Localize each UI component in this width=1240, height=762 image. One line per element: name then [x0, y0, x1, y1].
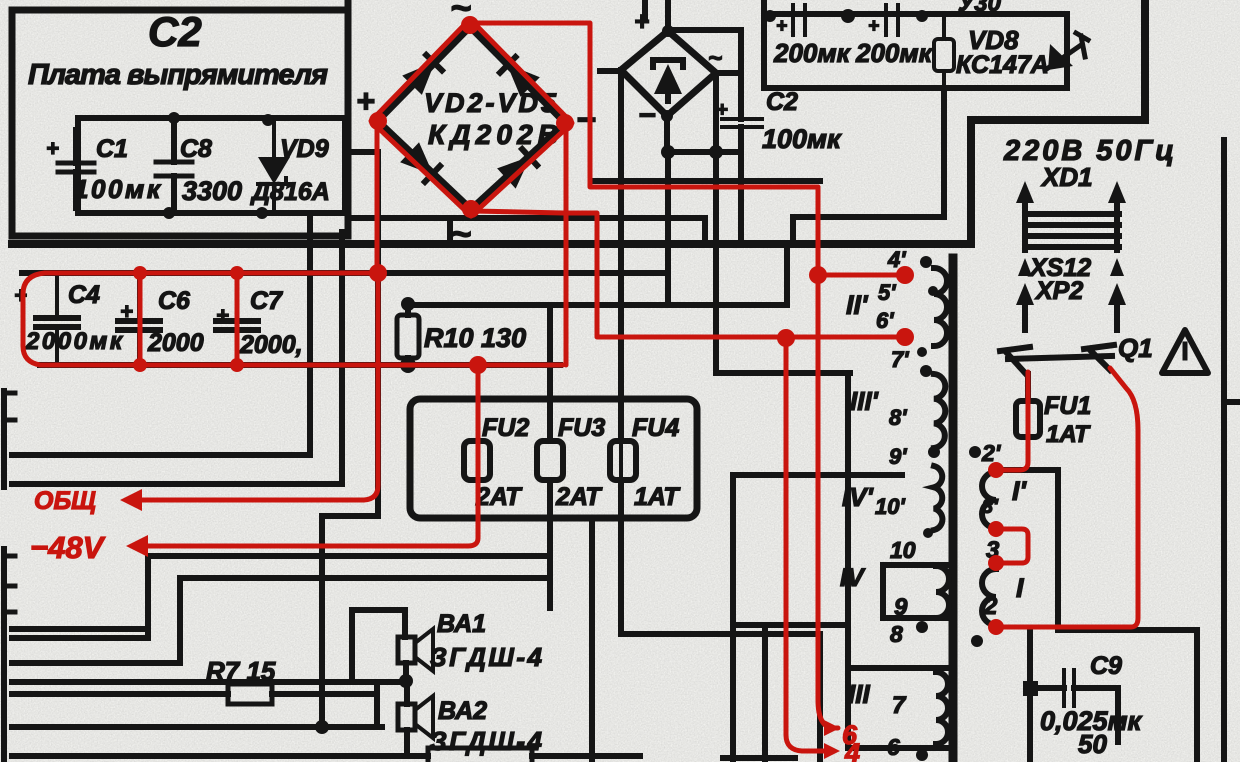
wire x=716 down [713, 73, 719, 373]
svg-text:Q1: Q1 [1118, 333, 1153, 363]
diode VD2 top-left arm [402, 53, 444, 95]
wire bridge2 plus stub [642, 0, 648, 20]
node bridge2 bottom [661, 110, 673, 122]
svg-text:ОБЩ: ОБЩ [34, 487, 96, 515]
speaker BA2 [398, 704, 415, 730]
wire x=820 down [817, 634, 823, 762]
svg-text:С8: С8 [180, 135, 212, 163]
svg-text:FU2: FU2 [482, 414, 529, 442]
red C6 trace [138, 273, 143, 365]
svg-text:ВА1: ВА1 [437, 610, 486, 638]
winding IV [936, 566, 949, 618]
transformer core [949, 258, 958, 762]
winding I primary [982, 569, 996, 625]
wire C8 lead [171, 118, 177, 213]
svg-text:С2: С2 [148, 8, 202, 55]
red arrowhead 4 [824, 743, 840, 759]
svg-text:С7: С7 [250, 287, 283, 315]
resistor bottom cut [428, 748, 532, 762]
svg-text:+: + [120, 299, 133, 324]
node pin 10' [923, 528, 933, 538]
fuse FU1 [1016, 401, 1040, 437]
svg-text:III': III' [850, 386, 879, 416]
wire switch to FU1 [1025, 374, 1031, 401]
svg-text:8: 8 [890, 621, 903, 647]
connector edge ladder upper [1, 391, 7, 487]
winding III box [848, 668, 948, 748]
svg-text:2: 2 [983, 593, 998, 620]
red bridge outline [371, 19, 572, 216]
red arrowhead 6 [824, 720, 840, 736]
svg-text:Д816А: Д816А [250, 178, 330, 206]
red wire minus48 [140, 365, 478, 546]
svg-text:9': 9' [889, 444, 907, 469]
red node pin 6' [896, 328, 914, 346]
svg-text:2АТ: 2АТ [555, 483, 603, 511]
connector XD1 pin arrows [1025, 196, 1117, 250]
svg-text:100мк: 100мк [762, 124, 842, 154]
svg-text:КС147А: КС147А [956, 51, 1049, 79]
wire y=475 [733, 472, 902, 478]
red node pin 4' [896, 266, 914, 284]
wire y=727 [12, 724, 382, 730]
svg-text:7: 7 [892, 692, 907, 719]
connector XD1 ladder [1027, 214, 1119, 247]
wire bridge2 bottom down [664, 116, 670, 152]
node pin 4' [920, 256, 932, 268]
warning triangle [1162, 330, 1208, 373]
fuse FU4 [610, 441, 636, 480]
wire x=622 down to FU4 [618, 70, 624, 441]
svg-text:2': 2' [981, 440, 1002, 466]
wire x=592 down [589, 520, 595, 762]
svg-text:FU3: FU3 [558, 414, 605, 442]
arrowhead XP2 right [1108, 283, 1126, 305]
wire minus bus y=365 [40, 362, 560, 368]
svg-text:I': I' [1012, 476, 1028, 506]
svg-text:IV': IV' [842, 482, 874, 512]
svg-text:3': 3' [982, 496, 999, 518]
svg-text:+: + [634, 6, 649, 36]
capacitor 200mk no1 [793, 5, 805, 35]
capacitor C2 [722, 119, 762, 127]
svg-text:XD1: XD1 [1040, 162, 1093, 192]
wire y=556 [148, 553, 545, 559]
red node box top main [369, 264, 387, 282]
svg-text:−: − [576, 101, 596, 139]
winding I' primary [982, 472, 996, 528]
VD9 triangle [258, 157, 290, 184]
fuse FU3 [537, 441, 563, 480]
svg-text:XP2: XP2 [1034, 277, 1083, 305]
wire bridge plus output down [375, 152, 381, 516]
filter box 200mk [764, 0, 1067, 88]
svg-text:2000: 2000 [147, 329, 204, 357]
red node bridge bottom [462, 200, 480, 218]
wire y=218 bridge bottom bus [348, 218, 705, 244]
red node box top C6 [133, 266, 147, 280]
node C9 [1023, 681, 1038, 696]
svg-text:4: 4 [844, 738, 860, 762]
node A inner box top C8 [168, 112, 180, 124]
wire C6 leads [137, 273, 141, 365]
wire C2 bottom [668, 127, 741, 152]
diode VD4 bottom-left arm [400, 142, 442, 184]
svg-text:R7 15: R7 15 [206, 656, 276, 686]
wire y=484 [12, 232, 342, 484]
svg-text:3300: 3300 [182, 176, 242, 206]
capacitor C7 [216, 321, 258, 330]
svg-text:+: + [716, 99, 728, 121]
winding IV' [934, 466, 942, 530]
svg-text:~: ~ [708, 45, 722, 72]
diode VD5 bottom-right arm [497, 147, 539, 189]
red node box bottom C7 [230, 358, 244, 372]
wire top vertex to C2 [670, 30, 741, 119]
wire y=633 pair [12, 629, 148, 638]
node pin 7' lower [920, 365, 932, 377]
red arrowhead minus48 [126, 535, 148, 557]
svg-text:С9: С9 [1090, 652, 1122, 680]
red C7 trace [235, 273, 240, 365]
node speakers junction [399, 674, 413, 688]
speaker BA1 [398, 637, 415, 663]
wire primary to C9 branch [996, 470, 1058, 630]
arrowhead XS12 left small [1018, 258, 1032, 276]
wire riser x=377 [374, 682, 380, 727]
wire y=663 [12, 660, 180, 666]
zener VD1 symbol [654, 64, 682, 94]
svg-text:С2: С2 [766, 88, 798, 116]
svg-text:7': 7' [891, 347, 909, 372]
svg-text:I: I [1016, 573, 1024, 603]
node x716 y152 [709, 145, 723, 159]
svg-text:10': 10' [875, 494, 905, 519]
node B inner box top VD9 [262, 114, 274, 126]
svg-text:−48V: −48V [30, 530, 106, 565]
arrowhead XS12 right small [1110, 258, 1124, 276]
red wire to arrow 4 [786, 338, 826, 751]
arrowhead XD1 left [1016, 181, 1034, 203]
red node bridge top [461, 16, 479, 34]
capacitor C1 [58, 163, 94, 172]
bridge 2 diamond VD1 [621, 31, 716, 116]
svg-text:−: − [638, 99, 656, 132]
svg-text:С1: С1 [96, 135, 128, 163]
red wire bottom vertex right [473, 211, 905, 337]
capacitor C6 [118, 321, 160, 330]
svg-text:С6: С6 [158, 287, 191, 315]
wire bridge2 left stub [600, 68, 621, 74]
svg-text:R10 130: R10 130 [424, 323, 526, 353]
svg-text:+: + [868, 16, 879, 37]
capacitor C8 [156, 162, 192, 176]
svg-text:6': 6' [876, 308, 894, 333]
resistor R10 [397, 315, 419, 358]
wire FU3 vertical [547, 305, 553, 608]
wire C9 branch [1030, 628, 1064, 762]
node pin 6 lower [916, 749, 928, 761]
svg-text:8': 8' [889, 405, 907, 430]
red wire x=818 down [818, 187, 838, 728]
wire y=625 [733, 622, 848, 628]
wire y=373 to transformer [716, 370, 850, 376]
red wire right vertex down [564, 123, 569, 365]
wire y=756 [12, 756, 795, 758]
svg-text:10: 10 [890, 537, 916, 563]
wire y=578 [180, 575, 550, 581]
wire x=733 down [730, 475, 736, 762]
red node pin 3 [988, 555, 1004, 571]
wire C4 leads [55, 273, 59, 365]
wire R10 leads [405, 305, 411, 366]
svg-text:100мк: 100мк [74, 174, 162, 204]
connector edge ladder lower [1, 549, 7, 762]
node pin 1' nc [969, 446, 981, 458]
wire C9 top [1058, 630, 1197, 762]
fuse holder box [410, 399, 697, 518]
svg-text:FU1: FU1 [1044, 392, 1091, 420]
svg-text:2000,: 2000, [239, 331, 303, 359]
red node bridge right [556, 114, 574, 132]
capacitor C9 [1064, 670, 1074, 706]
red capacitor box left [23, 273, 45, 365]
svg-text:+: + [356, 83, 375, 119]
svg-text:+: + [216, 303, 229, 328]
wire FU4 through [619, 441, 623, 480]
wire x=180 down [177, 578, 183, 663]
svg-text:У30: У30 [958, 0, 1002, 17]
wire R7 line y=694 [12, 691, 377, 697]
node pin 5' [928, 286, 938, 296]
node y727 x322 [315, 720, 329, 734]
svg-text:6: 6 [887, 734, 900, 760]
wire y=682 [12, 679, 402, 685]
red node y337 x786 [777, 329, 795, 347]
red node pin 2' [988, 462, 1004, 478]
svg-text:+: + [776, 16, 787, 37]
svg-text:1АТ: 1АТ [1046, 421, 1091, 448]
svg-text:Плата выпрямителя: Плата выпрямителя [28, 59, 328, 91]
wire C1 lead [73, 130, 79, 208]
capacitor C4 [36, 318, 78, 327]
fuse FU2 [464, 441, 490, 480]
node pin 7' [917, 347, 927, 357]
red arrowhead OBSHCH [120, 489, 142, 511]
svg-text:2АТ: 2АТ [475, 483, 523, 511]
long bus y=244 [12, 0, 1145, 244]
wire BA1 feed y=610 [352, 610, 402, 682]
arrowhead XP2 left [1016, 283, 1034, 305]
diode VD3 top-right arm [498, 55, 540, 97]
node R10 top [401, 297, 415, 311]
red wire pin2 to switch [996, 368, 1138, 627]
svg-text:+: + [46, 136, 59, 161]
svg-text:FU4: FU4 [632, 414, 679, 442]
wire y=182 [595, 178, 820, 184]
bridge rectifier VD2-VD5 diamond [377, 26, 566, 210]
svg-text:С4: С4 [68, 281, 100, 309]
svg-text:III: III [848, 679, 870, 709]
wire x=848 down [845, 373, 851, 668]
red node box bottom C6 [133, 358, 147, 372]
node R10 bottom [400, 357, 416, 373]
red capacitor box top [45, 271, 377, 276]
wire y=455 [12, 215, 310, 455]
wire FU4 output [621, 480, 820, 634]
switch Q1 contacts [1000, 345, 1114, 374]
node filter box dots [764, 10, 776, 22]
svg-text:VD9: VD9 [280, 135, 329, 163]
zener diode VD9 [258, 118, 290, 213]
svg-text:~: ~ [450, 213, 471, 254]
svg-text:200мк: 200мк [855, 38, 934, 68]
svg-text:IV: IV [840, 564, 866, 592]
zener diode VD8 [1048, 33, 1088, 68]
VD8 triangle [1048, 44, 1073, 70]
winding IV box [883, 565, 948, 618]
wire C7 leads [235, 273, 239, 365]
wire inner box to bridge [345, 149, 378, 155]
wire R30 branch down [793, 88, 944, 244]
capacitor 200mk no2 [886, 5, 898, 35]
node bridge2 bottom junction [661, 145, 675, 159]
svg-text:5': 5' [878, 280, 896, 305]
switch Q1 bar [1008, 356, 1112, 359]
svg-text:1АТ: 1АТ [634, 483, 681, 511]
plug XS12 XP2 arrows [1025, 300, 1117, 330]
svg-text:50: 50 [1078, 729, 1107, 759]
wire x=741 C2 to bus [738, 152, 744, 244]
red wire OBSHCH [134, 273, 378, 500]
winding III' [934, 374, 945, 448]
wire common bus y=273 [22, 270, 668, 276]
wire stub x=450 [447, 218, 453, 244]
node pin 8 [916, 621, 928, 633]
svg-text:ВА2: ВА2 [438, 697, 487, 725]
red node box top C7 [230, 266, 244, 280]
node pin 9' [928, 446, 940, 458]
wire C9 right lead [1074, 688, 1118, 742]
wire jog to left bundle [322, 516, 378, 730]
wire x=765 down [762, 625, 768, 762]
red jumper I' I [996, 529, 1028, 563]
node D inner box bottom VD9 [256, 207, 268, 219]
wire speakers leads [405, 610, 407, 756]
red wire primary FU1 [999, 372, 1028, 470]
inner component box (C1 C8 VD9) [78, 118, 345, 213]
red wire left vertex down [375, 121, 380, 273]
winding III [936, 672, 948, 744]
node bridge2 top [662, 25, 674, 37]
svg-text:II': II' [846, 290, 869, 320]
wire y=305 [408, 248, 787, 305]
red wire top vertex right [472, 23, 818, 187]
arrowhead XD1 right [1108, 181, 1126, 203]
red node bridge left [369, 112, 387, 130]
red capacitor box bottom [40, 363, 563, 368]
red node FU2 top [469, 356, 487, 374]
red node x818 [809, 266, 827, 284]
right edge wire [1224, 140, 1240, 762]
wire riser x=148 [145, 556, 151, 633]
red node pin 3' [988, 521, 1004, 537]
red wire pin4' branch [818, 273, 905, 278]
wire bridge2 top up [665, 0, 671, 31]
node pin 1 nc [971, 635, 983, 647]
resistor R7 [228, 684, 272, 704]
svg-text:200мк: 200мк [773, 38, 852, 68]
node C inner box bottom C8 [163, 207, 175, 219]
winding II' [934, 268, 947, 346]
red node pin 2 [988, 619, 1004, 635]
resistor R30 element [934, 39, 954, 71]
rectifier board outer box [12, 0, 348, 236]
svg-text:9: 9 [894, 594, 908, 621]
wire x=668 down [665, 152, 671, 305]
